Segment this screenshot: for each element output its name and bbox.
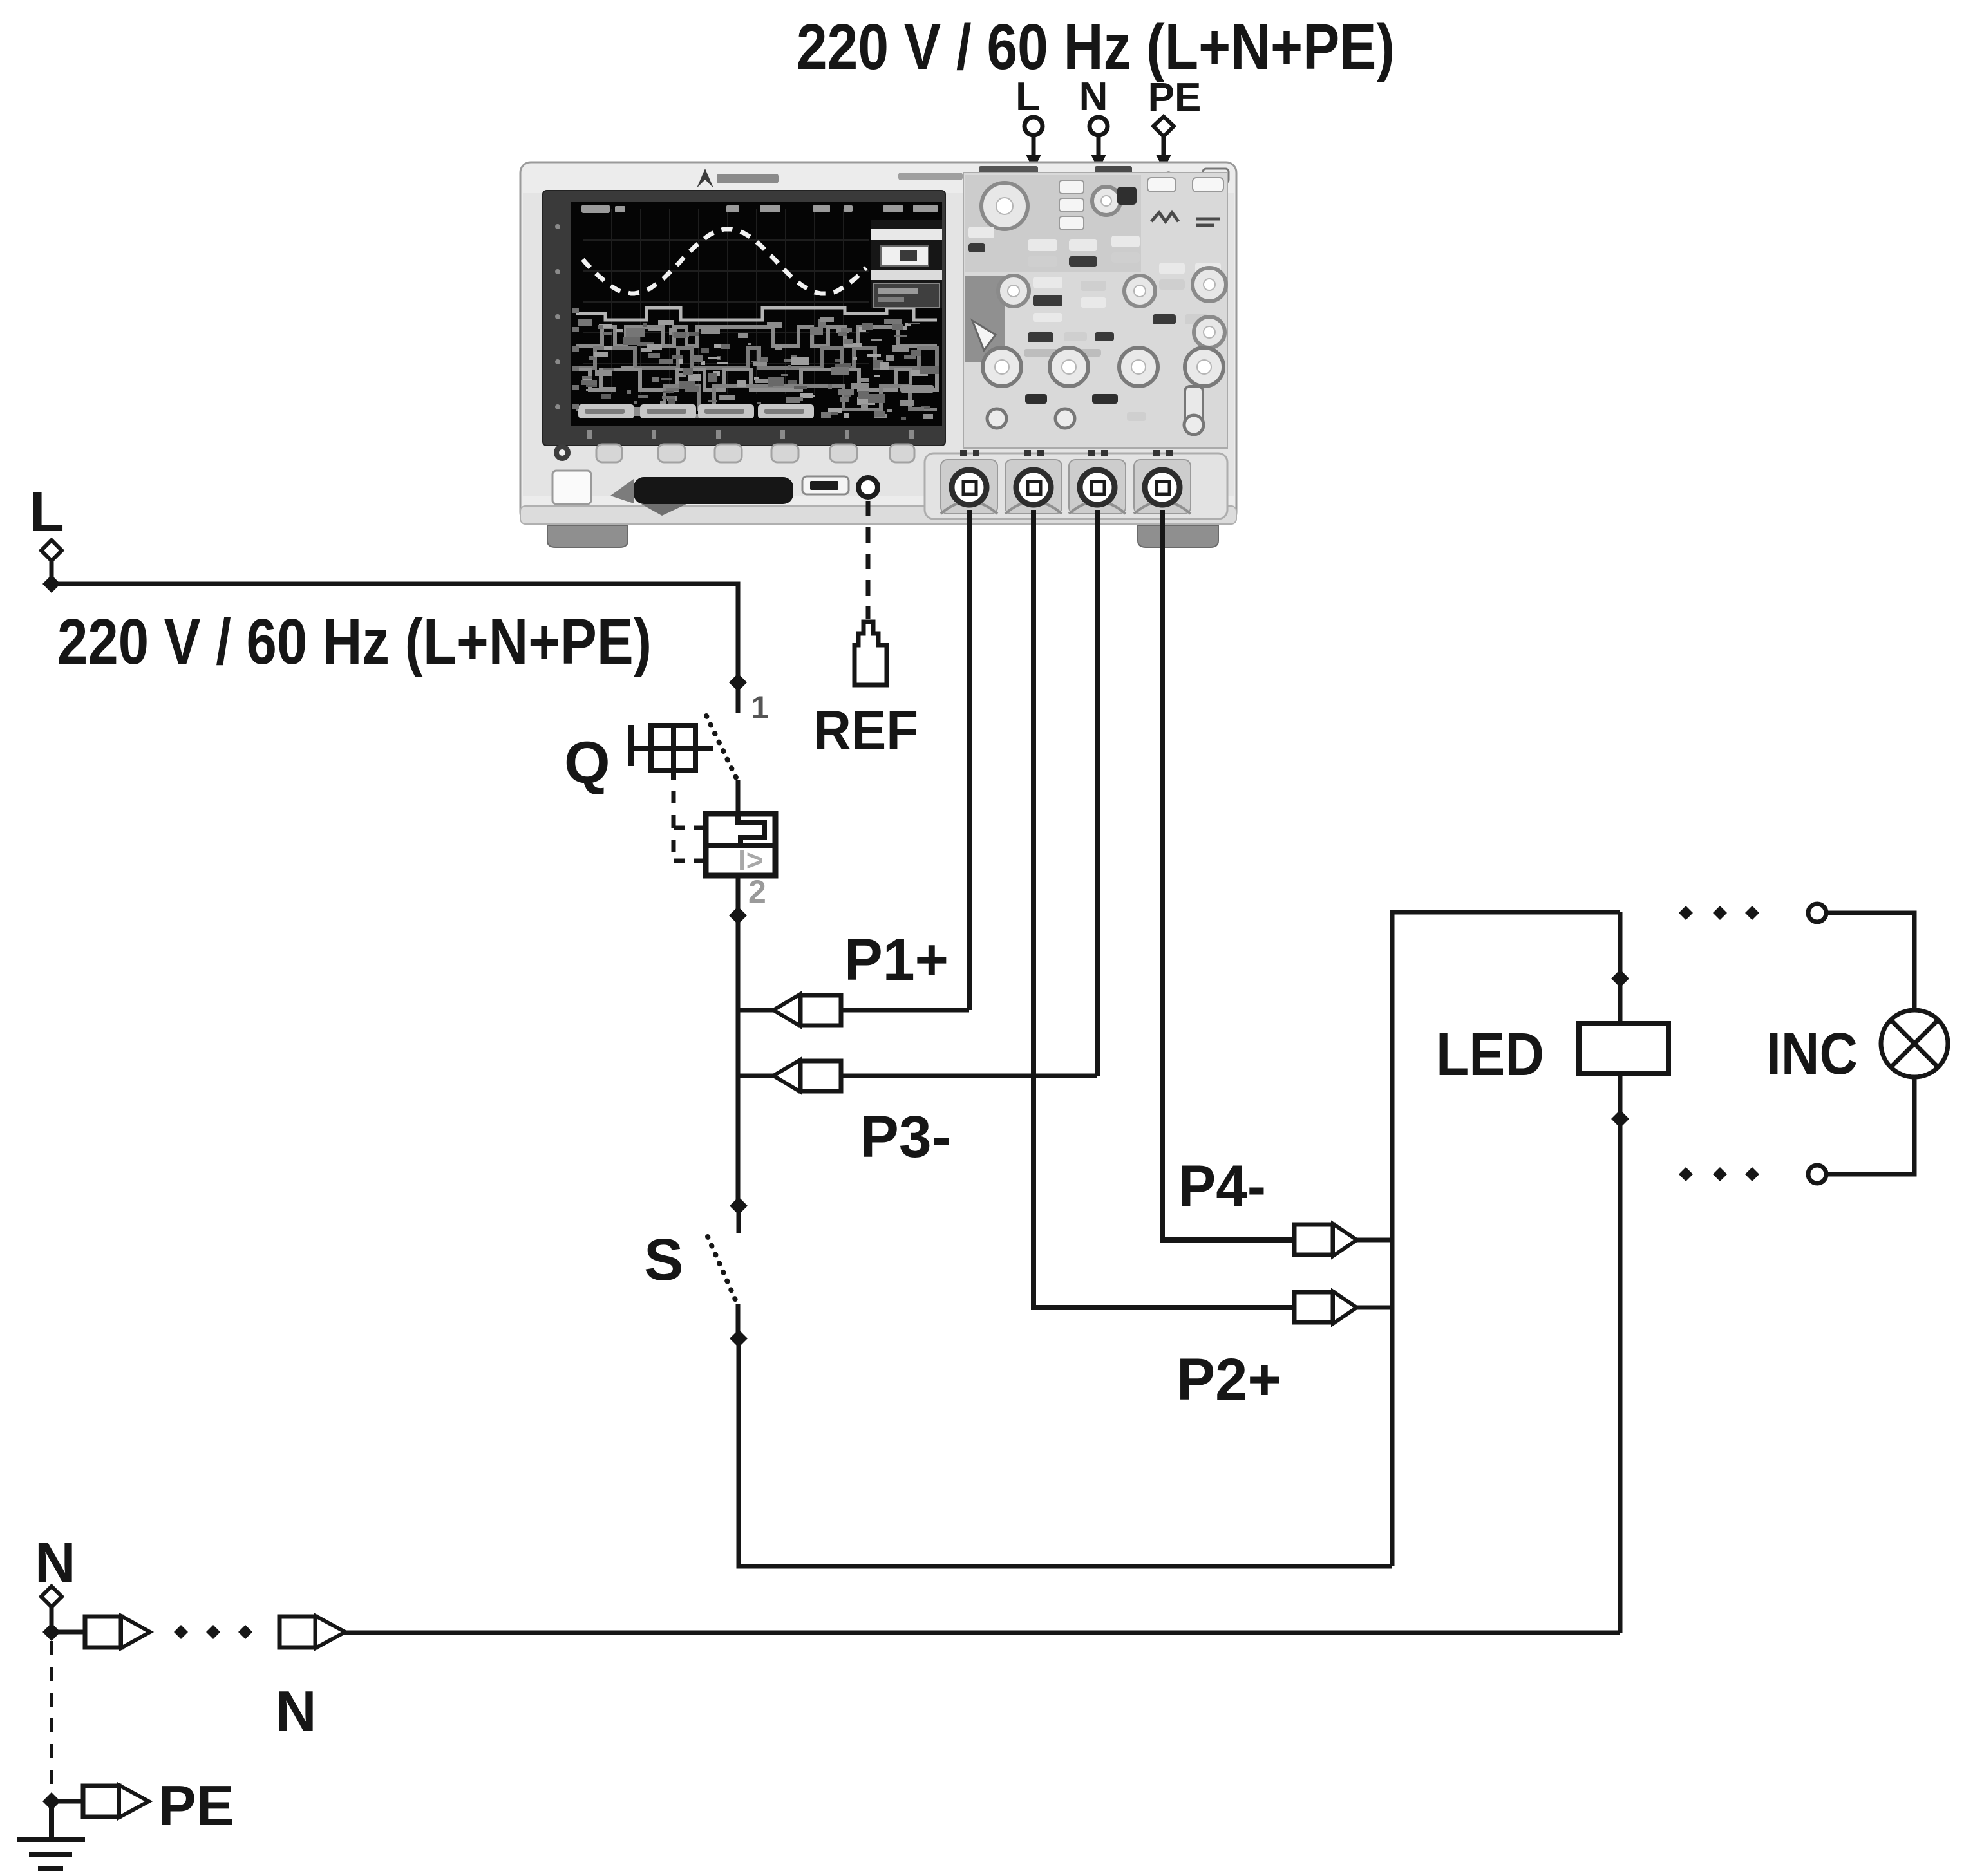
breaker Q actuator [631,725,713,780]
scope foot right [1138,525,1218,547]
svg-text:P4-: P4- [1178,1154,1266,1219]
svg-text:N: N [276,1679,317,1743]
junction L corner [42,575,61,593]
junction LED top [1611,970,1629,988]
junction N [42,1623,61,1641]
node L (scope supply) [1015,75,1043,170]
wire L feed [52,584,738,682]
svg-text:PE: PE [158,1774,234,1837]
break dots N [174,1625,252,1639]
probe P2+ [1294,1291,1392,1324]
scope REF terminal [858,478,878,497]
wire LED top stub [1618,912,1623,1024]
scope control panel [963,173,1227,448]
node N (scope supply) [1079,75,1108,170]
switch S lower node [730,1329,748,1347]
scope BNC CH3 [1069,450,1126,514]
wire CH4 drop [1162,510,1294,1240]
switch S blade [708,1237,738,1306]
scope screen bezel [543,191,945,446]
probe P1+ [738,994,969,1026]
wire PE dashed [50,1641,53,1796]
svg-text:2: 2 [748,874,766,910]
break dots top [1679,906,1759,920]
wire CH2 drop [1034,510,1294,1308]
scope BNC panel [925,453,1227,519]
LED driver box [1579,1024,1668,1074]
svg-text:220 V / 60 Hz (L+N+PE): 220 V / 60 Hz (L+N+PE) [57,606,652,678]
scope foot left [547,525,628,547]
scope cursor knob [1092,187,1120,215]
wire LED bottom stub [1618,1074,1623,1633]
scope BNC CH4 [1134,450,1191,514]
switch S upper node [730,1197,748,1215]
REF probe tip [855,622,887,685]
svg-text:LED: LED [1436,1020,1544,1089]
wire CH1 drop [967,510,972,1010]
wire LED loop left [1392,912,1620,1566]
wire INC top [1826,913,1914,1011]
break dots bottom [1679,1167,1759,1181]
wire blade to trip box [736,780,741,815]
wire trip box to node 2 [736,876,741,915]
svg-text:P2+: P2+ [1176,1347,1281,1412]
svg-text:P1+: P1+ [844,927,949,993]
wire main drop [736,915,741,1206]
scope probe-comp slot [552,471,591,504]
svg-text:L: L [1015,75,1040,119]
scope BNC CH2 [1005,450,1062,514]
breaker Q trip unit [706,814,775,877]
svg-text:1: 1 [751,689,769,726]
junction LED bottom [1611,1110,1629,1128]
terminal INC top [1808,904,1826,922]
ground [17,1801,85,1869]
svg-text:P3-: P3- [860,1104,951,1170]
probe P4- [1294,1224,1392,1256]
breaker Q blade [706,716,738,782]
scope brand strip [697,166,1229,188]
scope nav buttons [1059,180,1084,194]
junction PE [42,1792,61,1810]
wire N bus [343,1631,1620,1635]
svg-text:PE: PE [1148,75,1202,120]
connector N 1 [52,1616,150,1648]
svg-text:L: L [30,480,64,543]
scope logic traces [576,308,937,420]
scope body [520,162,1236,523]
node PE (scope supply) [1148,75,1202,170]
svg-text:REF: REF [813,700,918,762]
wire INC bottom [1826,1077,1914,1174]
scope softkey labels [578,404,814,418]
svg-text:S: S [644,1227,683,1293]
scope trigger knobs [1124,276,1155,306]
svg-text:I>: I> [738,843,764,877]
svg-text:INC: INC [1766,1021,1858,1087]
lamp INC [1881,1010,1948,1077]
scope front buttons [554,444,914,462]
svg-text:220 V / 60 Hz (L+N+PE): 220 V / 60 Hz (L+N+PE) [797,11,1395,83]
scope power arrow knob [972,321,996,350]
wire S to LED loop [739,1338,1392,1566]
oscilloscope U1 [520,162,1236,547]
scope waveform sine [583,229,866,294]
scope knob horizontal [981,183,1028,229]
wire CH3 drop [1095,510,1100,1076]
scope screen [571,202,942,426]
scope BNC CH1 [941,450,997,514]
wire breaker entry stub [736,682,741,713]
svg-text:Q: Q [564,730,610,796]
svg-text:N: N [35,1530,76,1594]
scope side panel [871,220,942,308]
probe P3- [738,1060,1097,1092]
connector PE [52,1785,149,1817]
scope channel knobs [983,348,1021,386]
connector N 2 [279,1616,345,1648]
REF dashed lead [866,501,871,619]
node 1 [729,673,747,691]
terminal INC bottom [1808,1165,1826,1183]
breaker Q trip linkage (dashed) [672,791,676,861]
svg-text:N: N [1079,75,1108,119]
node 2 [729,906,747,924]
